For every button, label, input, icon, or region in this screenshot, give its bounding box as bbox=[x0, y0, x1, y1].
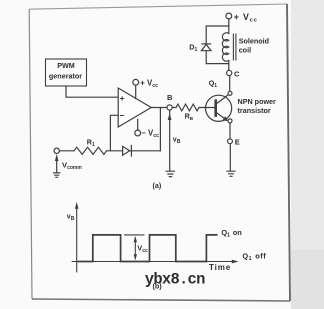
x axis time bbox=[72, 261, 236, 263]
wire E to ground bbox=[229, 144, 231, 171]
Vcc dimension arrow bbox=[134, 238, 136, 259]
op-amp U1 bbox=[118, 88, 151, 127]
node E terminal bbox=[228, 139, 233, 144]
transistor Q1 bbox=[206, 95, 232, 121]
wire node B to RB bbox=[172, 107, 176, 109]
wire emitter down to E bbox=[229, 123, 231, 139]
svg-text:Time: Time bbox=[209, 263, 231, 272]
wire +Vcc stub bbox=[135, 85, 137, 98]
y axis vB bbox=[76, 204, 78, 272]
Vcomm arrow bbox=[56, 158, 58, 173]
resistor RB bbox=[176, 104, 199, 111]
svg-text:ybx8.cn: ybx8.cn bbox=[145, 271, 205, 289]
dim arrowhead up bbox=[134, 236, 137, 242]
solenoid coil L1 bbox=[222, 33, 228, 61]
source terminal Vcomm bbox=[54, 148, 59, 153]
wire inverting input bbox=[110, 115, 118, 151]
svg-text:PWM: PWM bbox=[57, 61, 75, 70]
svg-text:generator: generator bbox=[49, 71, 82, 80]
collector pin terminal bbox=[228, 91, 232, 95]
svg-text:NPN power: NPN power bbox=[238, 97, 277, 106]
wire collector pin to node C bbox=[229, 76, 231, 92]
+Vcc supply terminal bbox=[226, 13, 232, 19]
svg-text:Solenoid: Solenoid bbox=[239, 36, 269, 45]
node B terminal bbox=[167, 105, 172, 110]
wire diode to feedback tap bbox=[130, 150, 161, 152]
svg-text:+: + bbox=[120, 93, 125, 103]
wire node B down (vB) bbox=[169, 110, 171, 171]
vB square wave bbox=[78, 235, 218, 262]
resistor R1 bbox=[74, 147, 107, 154]
PWM generator box bbox=[46, 59, 87, 86]
svg-text:(a): (a) bbox=[153, 181, 162, 190]
wire output feedback tap down bbox=[159, 108, 161, 151]
Vcc reference line bbox=[124, 234, 145, 236]
svg-text:B: B bbox=[167, 93, 173, 102]
y axis arrowhead bbox=[75, 202, 79, 209]
wire branch to D1 bbox=[206, 26, 229, 44]
wire coil to node C bbox=[228, 61, 230, 71]
border frame (decorative) bbox=[29, 4, 290, 301]
dim arrowhead down bbox=[134, 254, 137, 260]
svg-text:Q1 off: Q1 off bbox=[242, 251, 266, 262]
waveform (b) bbox=[72, 204, 236, 272]
svg-text:coil: coil bbox=[239, 46, 251, 55]
svg-text:C: C bbox=[234, 69, 240, 78]
node C terminal bbox=[227, 70, 232, 75]
wire +Vcc down to coil bbox=[228, 19, 230, 34]
wire Vcomm to R1 bbox=[59, 150, 74, 152]
op-amp +Vcc terminal bbox=[133, 79, 139, 85]
svg-text:–: – bbox=[120, 110, 125, 120]
op-amp -Vcc terminal bbox=[135, 130, 141, 136]
wire RB to transistor base bbox=[199, 107, 214, 109]
wire op-amp output to node B bbox=[151, 107, 167, 109]
emitter pin terminal bbox=[228, 119, 232, 123]
wire -Vcc stub bbox=[137, 119, 139, 130]
wire D1 to node C branch bbox=[206, 51, 229, 64]
vB arrow bbox=[168, 113, 172, 120]
wire PWM output to op-amp + input bbox=[66, 86, 118, 97]
x axis arrowhead bbox=[232, 260, 239, 264]
wire R1 to diode bbox=[107, 150, 122, 152]
diode D2 (feedback) bbox=[123, 146, 130, 155]
ground (Vcomm) bbox=[54, 173, 60, 177]
ground (vB) bbox=[166, 171, 174, 176]
ground (emitter) bbox=[227, 171, 235, 176]
svg-text:E: E bbox=[235, 137, 240, 146]
svg-text:transistor: transistor bbox=[238, 106, 271, 115]
diode D1 bbox=[202, 43, 211, 45]
